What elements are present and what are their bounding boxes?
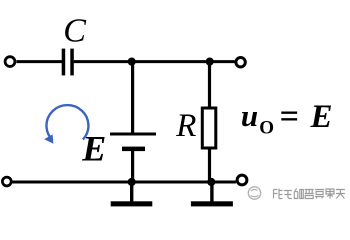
wire battery branch lower [131,149,134,182]
ground stub right [210,182,213,202]
watermark logo [248,187,260,199]
terminal bottom-right [237,175,247,185]
battery E short plate [122,147,145,152]
ground bar left [111,201,153,206]
svg-text:u: u [241,98,258,133]
terminal top-left [5,57,15,67]
watermark text [274,189,345,199]
wire battery branch upper [131,62,134,134]
loop arrow head [44,134,53,143]
svg-text:E: E [310,99,333,135]
capacitor C1 right plate [70,49,74,76]
node C bottom junction battery branch [128,178,136,186]
wire top-left segment [17,60,63,63]
node B top junction resistor branch [206,58,214,66]
svg-text:R: R [175,108,196,144]
terminal bottom-left [2,177,11,186]
capacitor C1 left plate [62,49,65,76]
wire top-right segment [74,60,235,63]
svg-text:C: C [63,13,86,50]
ground bar right [191,201,233,206]
wire resistor branch upper [208,62,211,107]
resistor R1 body [202,108,216,148]
battery E long plate [110,133,156,136]
terminal top-right [236,58,245,67]
wire bottom [12,181,236,184]
loop arrow blue arc [46,105,88,140]
svg-text:O: O [259,118,274,139]
node A top junction battery branch [128,58,136,66]
ground stub left [130,182,133,202]
svg-text:=: = [280,98,299,135]
svg-text:E: E [81,129,106,169]
node D bottom junction resistor branch [207,178,215,186]
wire resistor branch lower [208,148,211,182]
